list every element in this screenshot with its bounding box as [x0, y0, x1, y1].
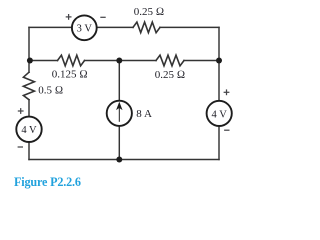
svg-text:3 V: 3 V: [77, 24, 93, 35]
current source I1 arrow: [117, 103, 121, 122]
wire top rail left segment: [29, 26, 72, 28]
voltage source V1 3V circle: [72, 15, 97, 40]
resistor R3 0.125 ohm: [58, 55, 85, 66]
voltage source V2 4V circle (left): [16, 117, 41, 142]
voltage source V2 minus sign: [18, 146, 23, 148]
wire top rail right segment: [97, 26, 133, 28]
voltage source V1 plus sign: [66, 14, 72, 20]
wire top rail to top-right corner: [160, 26, 219, 28]
wire left vertical to 4V source: [28, 100, 30, 117]
voltage source V3 minus sign: [224, 129, 229, 131]
wire left vertical below 4V to bottom-left corner: [28, 142, 30, 160]
wire second rail right segment: [184, 60, 219, 62]
svg-text:0.25 Ω: 0.25 Ω: [134, 6, 164, 18]
wire right vertical lower: [218, 126, 220, 160]
wire left vertical upper: [28, 27, 30, 72]
wire right vertical upper: [218, 27, 220, 100]
node D junction (middle branch / bottom rail): [116, 157, 122, 163]
resistor R1 0.25 ohm (top): [133, 22, 160, 33]
svg-text:0.25 Ω: 0.25 Ω: [155, 69, 185, 81]
resistor R4 0.25 ohm (second rail): [156, 55, 184, 66]
wire bottom rail: [29, 159, 219, 161]
svg-text:Figure P2.2.6: Figure P2.2.6: [14, 175, 81, 189]
svg-text:0.125 Ω: 0.125 Ω: [52, 69, 88, 81]
voltage source V2 plus sign: [18, 108, 24, 114]
node B junction (middle branch / second rail): [116, 58, 122, 64]
wire middle branch upper: [118, 61, 120, 101]
voltage source V1 minus sign: [100, 16, 105, 18]
voltage source V3 4V circle (right): [207, 101, 232, 126]
wire middle branch lower: [118, 126, 120, 160]
node C junction (right rail / second rail): [216, 58, 222, 64]
svg-text:0.5 Ω: 0.5 Ω: [38, 85, 63, 97]
wire second rail middle segment: [85, 60, 157, 62]
resistor R2 0.5 ohm (left vertical): [23, 72, 34, 100]
current source I1 8A circle: [107, 101, 132, 126]
node A junction (left rail / second rail): [27, 58, 33, 64]
svg-text:4 V: 4 V: [212, 109, 228, 120]
voltage source V3 plus sign: [224, 89, 230, 95]
wire second rail left segment: [29, 60, 58, 62]
svg-text:8 A: 8 A: [136, 108, 152, 120]
svg-text:4 V: 4 V: [21, 125, 37, 136]
